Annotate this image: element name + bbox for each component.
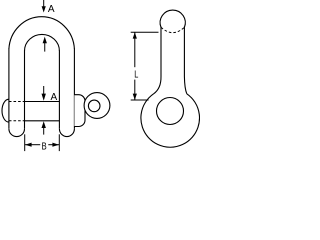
dimension B left extension line bbox=[24, 134, 26, 151]
pin eye head inner circle bbox=[88, 100, 100, 112]
dimension A pin: down arrow above pin bbox=[43, 86, 45, 94]
dimension B left arrow bbox=[25, 144, 40, 146]
dimension B right extension line bbox=[58, 134, 60, 151]
dimension A top: down arrow above outer arc bbox=[43, 0, 45, 8]
dimension L bottom extension line bbox=[131, 99, 149, 101]
shackle bow outer arc bbox=[9, 17, 75, 49]
pin top edge between legs bbox=[25, 101, 60, 103]
right leg outer line bbox=[73, 49, 75, 129]
dimension A top: up arrow below inner arc bbox=[43, 37, 47, 44]
pin hidden top edge in left leg (dashed) bbox=[9, 101, 25, 103]
pin side view: hidden neck arc (dashed) bbox=[161, 27, 184, 32]
dimension A pin: up arrow below pin bbox=[42, 121, 46, 128]
pin eye head outer circle bbox=[84, 93, 110, 119]
left leg inner line bbox=[24, 51, 26, 129]
pin side view: ball head arc bbox=[160, 10, 185, 27]
pin side view: eye outer outline bbox=[141, 94, 200, 147]
pin hidden bottom edge in left leg (dashed) bbox=[9, 120, 25, 122]
svg-text:A: A bbox=[48, 4, 55, 15]
pin side view: eye hole circle bbox=[157, 98, 184, 125]
pin side view: left shank line and flare bbox=[154, 27, 161, 94]
right leg inner line bbox=[58, 51, 60, 129]
dimension L top extension line bbox=[131, 31, 159, 33]
shackle bow inner arc bbox=[25, 34, 60, 51]
dimension L line upper segment with up arrow bbox=[134, 32, 136, 67]
svg-text:B: B bbox=[42, 142, 47, 153]
pin collar on right leg bbox=[74, 95, 85, 127]
left leg outer line bbox=[8, 49, 10, 129]
pin head left semicircle bbox=[2, 99, 9, 122]
pin side view: right shank line and flare bbox=[184, 27, 186, 94]
right leg bottom cap bbox=[59, 129, 74, 137]
svg-text:L: L bbox=[134, 70, 138, 81]
left leg bottom cap bbox=[9, 129, 25, 137]
dimension B right arrow bbox=[48, 144, 59, 146]
svg-text:A: A bbox=[51, 92, 58, 103]
pin bottom edge between legs bbox=[25, 120, 60, 122]
dimension L line lower segment with down arrow bbox=[134, 80, 136, 100]
